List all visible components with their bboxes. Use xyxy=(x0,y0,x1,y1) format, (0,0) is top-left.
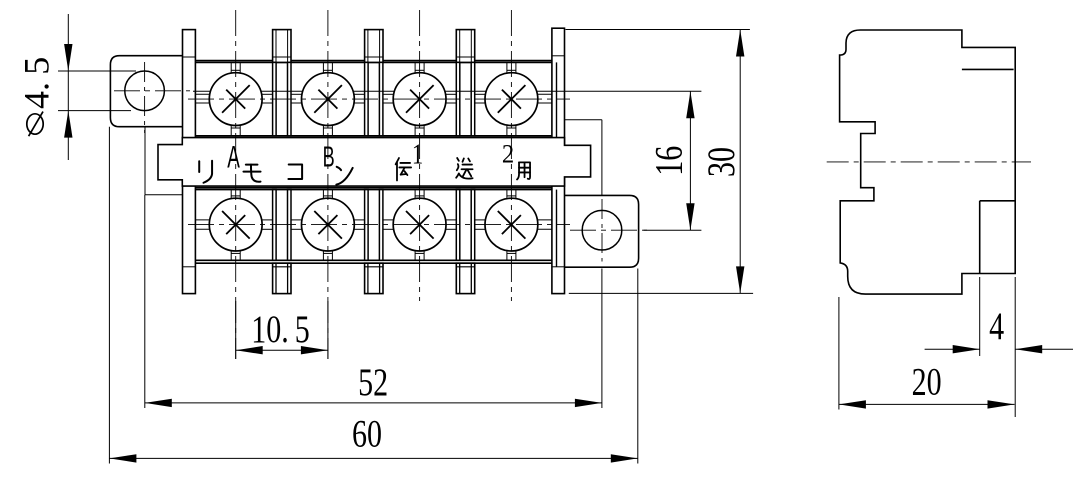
strip text リ xyxy=(199,161,212,183)
dim phi4.5 extension lines xyxy=(58,70,136,72)
left mounting tab xyxy=(110,56,196,127)
terminal column centerline 2 xyxy=(327,10,329,359)
dim 60 extension lines xyxy=(108,127,110,464)
terminal screw T3 (top row) xyxy=(383,93,395,95)
dim 10.5 extension lines xyxy=(235,301,237,359)
dim text 52 xyxy=(358,360,388,404)
strip text モ xyxy=(244,165,261,182)
svg-text:4. 5: 4. 5 xyxy=(17,57,57,109)
barrier wall 3 xyxy=(365,30,383,63)
bottom row centerline xyxy=(188,224,570,226)
barrier wall 4 xyxy=(456,30,474,63)
dim text phi4.5 xyxy=(27,114,43,134)
svg-text:4: 4 xyxy=(989,304,1004,348)
strip text 伝 xyxy=(396,158,411,181)
svg-text:1: 1 xyxy=(412,138,423,170)
dim 30 extension lines xyxy=(566,29,750,31)
right hole crosshair xyxy=(570,229,647,231)
dim text 10.5 xyxy=(251,307,310,351)
terminal screw B1 (bottom row) xyxy=(195,219,211,221)
svg-text:60: 60 xyxy=(352,411,382,455)
terminal screw T1 (top row) xyxy=(195,93,211,95)
terminal screw T2 (top row) xyxy=(291,93,304,95)
dim 4 line+arrows xyxy=(925,348,980,350)
side top flange line xyxy=(962,68,1014,70)
strip text 2 xyxy=(502,140,514,169)
body top edges xyxy=(183,60,565,62)
svg-text:2: 2 xyxy=(502,140,514,169)
top row centerline xyxy=(188,98,570,100)
dim 30 line+arrows xyxy=(739,30,741,294)
dim text 16 xyxy=(646,146,690,176)
svg-text:52: 52 xyxy=(358,360,388,404)
strip text ン xyxy=(336,167,352,185)
dim 20 extension line xyxy=(838,297,840,410)
dim 52 extension lines xyxy=(144,195,146,408)
terminal screw B4 (bottom row) xyxy=(475,219,487,221)
dim 60 line+arrows xyxy=(109,457,637,459)
strip text B xyxy=(323,141,335,173)
svg-text:20: 20 xyxy=(912,360,942,404)
svg-text:16: 16 xyxy=(646,146,690,176)
side bottom flange block xyxy=(979,201,981,274)
svg-text:10. 5: 10. 5 xyxy=(251,307,310,351)
dim 10.5 line+arrows xyxy=(236,349,328,351)
barrier wall 2 xyxy=(273,30,291,63)
strip text コ xyxy=(288,165,302,179)
marking strip xyxy=(158,138,591,187)
right bracket line xyxy=(565,119,602,121)
right mounting tab xyxy=(565,195,639,267)
left bracket line xyxy=(144,127,146,195)
terminal column centerline 3 xyxy=(419,10,421,301)
dim 4 extension lines xyxy=(979,277,981,356)
terminal screw B2 (bottom row) xyxy=(291,219,304,221)
right end barrier xyxy=(552,28,565,293)
svg-text:30: 30 xyxy=(699,147,743,177)
dim 20 line+arrows xyxy=(839,403,1015,405)
top row lower edges xyxy=(183,135,565,137)
dim 16 line+arrows xyxy=(689,91,691,230)
right tab hole xyxy=(582,210,622,250)
strip text 送 xyxy=(456,158,472,179)
side centerline xyxy=(827,161,1031,163)
dim text 4 xyxy=(989,304,1004,348)
svg-text:B: B xyxy=(323,141,335,173)
bottom row bottom edges xyxy=(183,259,565,261)
dim text 30 xyxy=(699,147,743,177)
dim phi4.5 line+arrows xyxy=(67,14,69,160)
strip text A xyxy=(227,139,240,175)
side view outline xyxy=(840,30,1016,294)
terminal column centerline 4 xyxy=(510,10,512,301)
left hole crosshair xyxy=(114,90,190,92)
dim 16 extension line xyxy=(644,229,702,231)
dim 52 line+arrows xyxy=(145,402,602,404)
terminal screw T4 (top row) xyxy=(475,93,487,95)
dim text 20 xyxy=(912,360,942,404)
top strip line xyxy=(193,90,701,92)
strip text 用 xyxy=(517,162,530,179)
left tab hole xyxy=(125,71,165,111)
bottom row top edges xyxy=(183,187,565,189)
dim text 60 xyxy=(352,411,382,455)
strip text 1 xyxy=(412,138,423,170)
left end barrier xyxy=(183,30,196,294)
terminal column centerline 1 xyxy=(235,10,237,359)
terminal screw B3 (bottom row) xyxy=(383,219,395,221)
svg-text:A: A xyxy=(227,139,240,175)
